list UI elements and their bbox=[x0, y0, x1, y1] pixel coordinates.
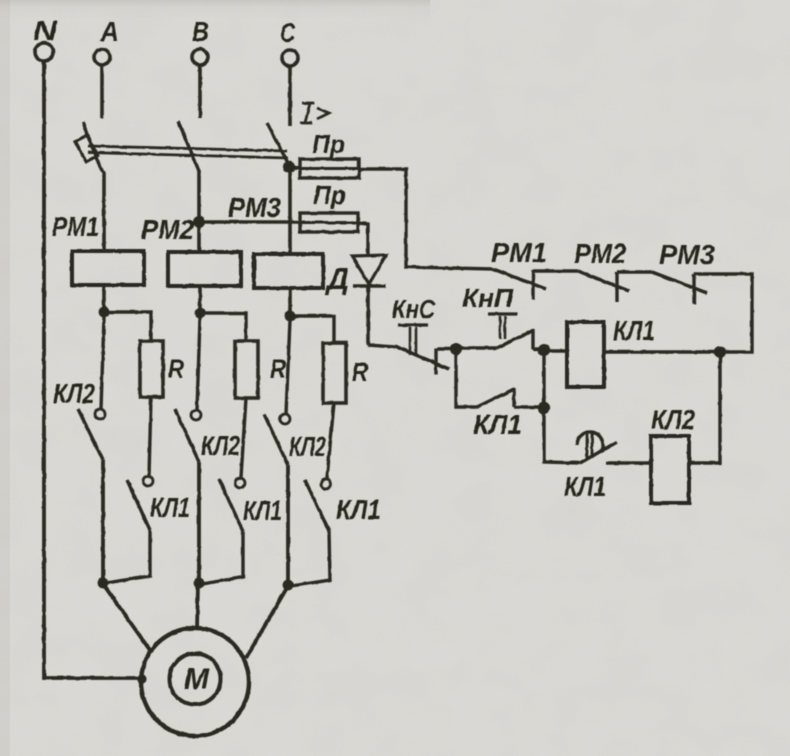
svg-text:РМ3: РМ3 bbox=[659, 239, 715, 270]
wire КЛ2 coil to right rail bbox=[689, 353, 720, 463]
wire delayed contact to КЛ2 coil bbox=[606, 461, 651, 464]
svg-text:Д: Д bbox=[324, 261, 349, 296]
svg-text:B: B bbox=[192, 16, 209, 47]
contact РМ2 (NC) bbox=[578, 271, 629, 291]
svg-text:КЛ1: КЛ1 bbox=[336, 494, 381, 525]
button КнС (stop, NC) bbox=[368, 345, 395, 347]
relay coil РМ1 bbox=[72, 251, 144, 285]
wire fuse1 to PM row bbox=[359, 169, 493, 269]
svg-text:КЛ2: КЛ2 bbox=[289, 431, 326, 462]
terminal B bbox=[192, 49, 208, 65]
relay coil РМ3 bbox=[254, 254, 323, 288]
wire РМ3 to right rail bbox=[604, 274, 752, 352]
node right rail bbox=[714, 346, 726, 358]
svg-text:КнП: КнП bbox=[462, 283, 514, 313]
wire C drop to switch bbox=[288, 66, 292, 126]
resistor R phase C bbox=[323, 343, 346, 403]
fuse Пр 1 bbox=[300, 159, 359, 178]
contact КЛ1 phase B bbox=[235, 478, 245, 488]
contact КЛ2 phase B bbox=[191, 410, 201, 420]
node C1 bbox=[285, 311, 296, 322]
svg-text:РМ2: РМ2 bbox=[574, 238, 626, 269]
wire R-C to contact bbox=[327, 403, 334, 478]
label I> overcurrent bbox=[300, 103, 329, 123]
wire main phase B to КЛ2 contact bbox=[197, 318, 200, 410]
motor M outer bbox=[141, 628, 249, 736]
svg-text:М: М bbox=[184, 663, 210, 696]
wire РМ3 feed to fuse 2 bbox=[199, 220, 300, 223]
terminal A bbox=[94, 49, 110, 65]
wire K1-K2 bbox=[542, 350, 545, 408]
svg-text:R: R bbox=[352, 357, 368, 387]
wire main phase A to КЛ2 contact bbox=[101, 317, 104, 409]
svg-text:РМ3: РМ3 bbox=[228, 192, 281, 223]
wire coil РМ2 to node B1 bbox=[198, 286, 202, 313]
wire КнС out bbox=[437, 347, 457, 350]
contact КЛ2 phase C bbox=[280, 414, 290, 424]
contact КЛ1 phase A (circle + blade) bbox=[143, 476, 153, 486]
svg-text:N: N bbox=[33, 15, 58, 46]
node S1 bbox=[450, 343, 462, 355]
node B2 bbox=[194, 578, 205, 589]
svg-text:Пр: Пр bbox=[313, 180, 346, 210]
switch blade C bbox=[267, 123, 289, 165]
svg-text:КЛ1: КЛ1 bbox=[150, 492, 190, 523]
wire B to motor bbox=[197, 584, 198, 629]
wire coil РМ3 to node C1 bbox=[288, 288, 292, 316]
fuse Пр 2 bbox=[300, 213, 358, 232]
switch mechanical bar (double line) bbox=[88, 146, 287, 151]
wire B drop to switch bbox=[198, 65, 202, 118]
resistor R phase A bbox=[140, 341, 163, 397]
svg-text:R: R bbox=[270, 354, 286, 384]
svg-text:A: A bbox=[99, 16, 119, 47]
wire N vertical to bottom and to motor bbox=[44, 61, 139, 678]
svg-text:КЛ2: КЛ2 bbox=[651, 404, 695, 435]
wire fuse2 to diode bbox=[358, 223, 368, 255]
node: N to motor junction bbox=[137, 674, 146, 683]
contact КЛ1 phase C bbox=[321, 479, 331, 489]
node B1 bbox=[195, 308, 206, 319]
wire КЛ1-B down and join bbox=[202, 531, 243, 584]
svg-text:Пр: Пр bbox=[312, 129, 345, 159]
contact РМ1 (NC) bbox=[493, 269, 546, 289]
node A2 bbox=[98, 578, 109, 589]
wire to fuse 1 bbox=[289, 167, 300, 168]
svg-text:КнС: КнС bbox=[392, 294, 436, 324]
wire РМ1-РМ2 bbox=[533, 269, 578, 272]
wire КЛ1-C down and join bbox=[291, 531, 330, 586]
wire C switch to coil bbox=[288, 164, 292, 255]
svg-text:РМ2: РМ2 bbox=[141, 214, 194, 245]
svg-text:КЛ2: КЛ2 bbox=[201, 430, 240, 461]
resistor R phase B bbox=[235, 341, 258, 398]
wire branch to resistor R phase C bbox=[290, 316, 334, 343]
wire C to motor bbox=[246, 586, 288, 658]
contactor coil КЛ1 bbox=[567, 322, 604, 387]
wire КЛ1 coil left bbox=[545, 349, 567, 352]
svg-text:КЛ1: КЛ1 bbox=[473, 409, 522, 440]
switch blade B bbox=[178, 121, 199, 171]
svg-text:РМ1: РМ1 bbox=[52, 211, 99, 242]
motor M inner bbox=[170, 654, 221, 705]
contact КЛ2 phase A bbox=[95, 409, 105, 419]
wire A drop to switch bbox=[100, 65, 104, 118]
svg-text:КЛ1: КЛ1 bbox=[613, 315, 655, 346]
wire coil РМ1 to node A1 bbox=[102, 285, 106, 312]
wire РМ2-РМ3 bbox=[617, 270, 652, 273]
wire diode to КнС bbox=[366, 286, 370, 345]
button КнП (start, NO) bbox=[456, 346, 497, 349]
node A1 bbox=[99, 307, 110, 318]
diode Д bbox=[352, 255, 386, 284]
svg-text:РМ1: РМ1 bbox=[491, 237, 547, 268]
wire B switch to coil bbox=[197, 170, 201, 253]
wire R-B to contact bbox=[241, 398, 246, 477]
relay coil РМ2 bbox=[168, 252, 241, 286]
terminal C bbox=[282, 50, 298, 66]
wire branch to resistor R phase A bbox=[104, 312, 151, 341]
node K1 bbox=[538, 344, 550, 356]
terminal N bbox=[35, 43, 53, 61]
switch QF blade A with handle bbox=[83, 122, 104, 174]
wire КнП out bbox=[533, 347, 545, 350]
svg-text:R: R bbox=[168, 354, 184, 384]
wire branch to resistor R phase B bbox=[200, 313, 246, 341]
wire КЛ1-A down and join bbox=[106, 530, 150, 583]
svg-text:КЛ1: КЛ1 bbox=[243, 495, 282, 526]
wire main phase C to КЛ2 contact bbox=[286, 320, 290, 414]
wire КЛ2-C down bbox=[286, 465, 290, 585]
contact КЛ1 time-delayed (NO, dashpot) bbox=[544, 408, 580, 463]
wire A to motor bbox=[103, 584, 152, 653]
node fuse1 tap on phase C bbox=[283, 161, 295, 173]
contact РМ3 (NC) bbox=[652, 272, 707, 293]
svg-text:КЛ2: КЛ2 bbox=[53, 378, 95, 409]
node C2 bbox=[283, 580, 294, 591]
wire R-A to contact bbox=[149, 397, 151, 476]
wire A switch to coil bbox=[102, 173, 106, 252]
contact КЛ1 self-hold (NO) bbox=[456, 349, 477, 407]
node РМ3 tap on phase B bbox=[193, 216, 205, 228]
wire КЛ2-B down bbox=[197, 462, 201, 583]
wire КЛ2-A down bbox=[101, 460, 105, 583]
svg-text:КЛ1: КЛ1 bbox=[564, 471, 606, 502]
contactor coil КЛ2 bbox=[651, 436, 689, 503]
svg-text:C: C bbox=[280, 17, 296, 48]
node K2 bbox=[538, 402, 550, 414]
